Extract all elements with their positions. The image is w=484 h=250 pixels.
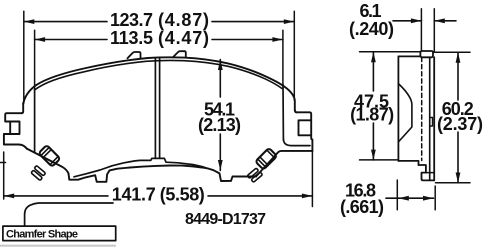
side inner nub (430, 118, 433, 127)
right clip tails (247, 168, 262, 183)
leader tick at left edge (0, 162, 6, 164)
svg-text:141.7: 141.7 (112, 184, 156, 204)
right ear notch (299, 120, 312, 135)
bottom-right diagonal under clip (256, 151, 312, 177)
svg-text:(4.47): (4.47) (158, 28, 209, 48)
side bottom tab inner line (426, 172, 433, 174)
dimension line 141.7 (4, 195, 313, 197)
backing bottom edge (left dips) (69, 166, 257, 182)
svg-text:123.7: 123.7 (110, 10, 153, 30)
left clip barrel (39, 145, 61, 167)
left ear notch inner line (9, 122, 11, 135)
dimension line 16.8 (386, 197, 434, 199)
dimension 6.1 arrows (393, 20, 456, 22)
svg-text:(4.87): (4.87) (158, 10, 209, 30)
right ear (296, 112, 312, 151)
dimension 60.2 vertical (457, 52, 459, 183)
svg-text:(.661): (.661) (340, 197, 384, 217)
extension 16.8 right (434, 186, 436, 210)
dimension 54.1 vertical (219, 60, 221, 171)
extension line 141.7 right (311, 151, 313, 207)
pad outer arc (front view top edge) (23, 57, 295, 110)
friction bottom edge (center) (74, 158, 208, 176)
svg-text:(2.13): (2.13) (198, 115, 241, 135)
chamfer profile line (25, 203, 113, 226)
side friction bottom (398, 161, 418, 165)
chamfer label box (3, 226, 116, 241)
left clip tails (31, 165, 46, 180)
extension line 113.5 right (282, 30, 284, 84)
top tab 1 (128, 52, 141, 58)
extension line 113.5 left (34, 30, 36, 89)
pad left edge (21, 103, 23, 113)
side top tab (420, 51, 433, 57)
bottom-left diagonal under clip (27, 149, 69, 174)
scan shadow line (0, 245, 115, 247)
top tab 2 (173, 51, 186, 57)
svg-text:8449-D1737: 8449-D1737 (185, 211, 266, 228)
dimension line 113.5 (35, 39, 283, 41)
friction right edge (282, 85, 284, 141)
extension line 123.7 right (293, 11, 295, 100)
extension 16.8 left (396, 180, 398, 210)
svg-text:(2.37): (2.37) (437, 114, 483, 134)
extension line 141.7 left (3, 152, 5, 199)
extension 6.1 left (420, 9, 422, 50)
side chamfer line (399, 84, 412, 142)
center slot (155, 58, 159, 158)
friction bottom right (283, 139, 310, 146)
svg-text:Chamfer Shape: Chamfer Shape (6, 228, 78, 240)
extension line 123.7 left (23, 11, 25, 103)
side right edge (433, 57, 435, 180)
side left (friction face) edge (397, 56, 399, 160)
dimension 47.5 vertical (372, 52, 374, 160)
side bottom tab (419, 165, 435, 180)
side inner solid line (429, 57, 431, 180)
extension 6.1 right (433, 9, 435, 53)
dimension line 123.7 (24, 21, 295, 23)
bottom extension 47.5 (360, 159, 398, 161)
left ear with notch (4, 113, 27, 148)
right backing edge above ear (295, 111, 297, 113)
svg-text:(1.87): (1.87) (350, 105, 394, 125)
friction left edge (34, 90, 36, 152)
svg-text:(.240): (.240) (349, 19, 394, 39)
svg-text:(5.58): (5.58) (160, 184, 205, 204)
svg-text:113.5: 113.5 (110, 28, 153, 48)
top extension line 47.5/60.2 (360, 51, 471, 54)
right clip barrel (255, 148, 277, 170)
pad inner arc (backing plate top line) (35, 60, 282, 90)
bottom extension 60.2 (436, 182, 471, 184)
side top edge (398, 55, 420, 57)
side hidden dashed line (421, 57, 423, 160)
